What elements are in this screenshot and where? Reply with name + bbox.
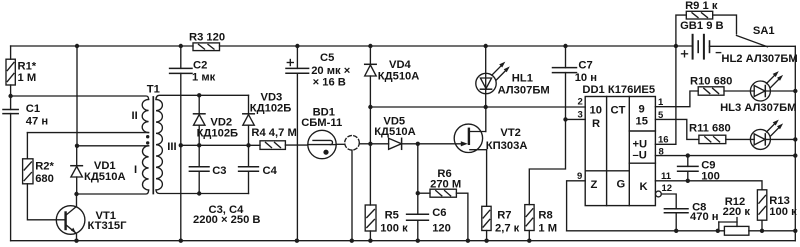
wire top supply bus left segment	[11, 45, 193, 47]
capacitor C7	[553, 46, 577, 119]
node C9 top	[686, 153, 690, 157]
svg-text:R4 4,7 М: R4 4,7 М	[251, 127, 296, 139]
resistor R9	[676, 11, 737, 46]
node HL3 rail	[793, 137, 797, 141]
capacitor C3	[189, 145, 209, 193]
svg-text:I: I	[134, 164, 137, 176]
node C5 top bus	[295, 44, 299, 48]
wire R4 to BD1	[285, 144, 307, 146]
svg-text:КД102Б: КД102Б	[197, 128, 239, 140]
svg-text:R5: R5	[385, 210, 399, 222]
node VT1 collector / VD1 / winding I bottom	[74, 192, 78, 196]
svg-text:R: R	[592, 118, 600, 130]
svg-text:3: 3	[578, 109, 583, 120]
svg-text:–U: –U	[633, 150, 647, 162]
svg-text:C1: C1	[26, 103, 40, 115]
svg-text:K: K	[640, 181, 648, 193]
transformer T1 polarity dots	[146, 135, 149, 138]
resistor R6	[418, 189, 468, 241]
svg-text:120: 120	[432, 223, 451, 235]
svg-text:СБМ-11: СБМ-11	[301, 117, 342, 129]
svg-text:9: 9	[639, 104, 645, 116]
wire top bus down to VD1	[76, 46, 78, 146]
node rail divider row	[793, 229, 797, 233]
switch SA1 blade	[737, 36, 768, 47]
resistor R12 trimmer	[719, 218, 749, 236]
svg-text:R3 120: R3 120	[189, 32, 225, 44]
node R6 ground	[466, 239, 470, 243]
node HL2 rail	[793, 89, 797, 93]
svg-text:470 н: 470 н	[690, 211, 719, 223]
wire pin3 stub	[566, 118, 586, 120]
IC pin12 inversion bubble	[656, 191, 662, 197]
svg-text:VT2: VT2	[500, 127, 521, 139]
diode VD4	[365, 46, 377, 107]
svg-text:C5: C5	[320, 52, 334, 64]
capacitor C2	[170, 46, 192, 241]
svg-text:R2*: R2*	[35, 161, 54, 173]
svg-text:GB1 9 В: GB1 9 В	[680, 20, 724, 32]
IC DD1 box	[585, 97, 655, 206]
wire R10 to HL2	[724, 90, 754, 92]
led HL3	[750, 120, 795, 150]
battery GB1	[682, 35, 721, 59]
svg-text:2,7 к: 2,7 к	[495, 223, 520, 235]
svg-text:КД102Б: КД102Б	[250, 103, 292, 115]
svg-text:DD1 К176ИЕ5: DD1 К176ИЕ5	[582, 84, 655, 96]
svg-text:КП303А: КП303А	[486, 140, 528, 152]
svg-text:1 М: 1 М	[18, 72, 37, 84]
svg-text:R11 680: R11 680	[689, 123, 731, 135]
svg-text:КД510А: КД510А	[374, 126, 416, 138]
svg-text:HL1: HL1	[512, 73, 533, 85]
wire power rail to pin16	[655, 46, 676, 144]
svg-text:HL2 АЛ307БМ: HL2 АЛ307БМ	[721, 53, 797, 65]
resistor R11	[699, 135, 726, 143]
svg-text:1 мк: 1 мк	[192, 72, 216, 84]
svg-text:С3: С3	[212, 165, 226, 177]
svg-text:100 к: 100 к	[380, 223, 408, 235]
node C2 top bus	[179, 44, 183, 48]
svg-text:680: 680	[35, 173, 54, 185]
capacitor C5	[286, 46, 309, 241]
resistor R3	[193, 43, 220, 51]
svg-text:КТ315Г: КТ315Г	[88, 220, 128, 232]
node R1 bottom / C1 top	[8, 94, 12, 98]
wire pin12 to C8	[661, 194, 676, 209]
svg-text:CT: CT	[611, 105, 626, 117]
wire dashed terminal to ground	[351, 150, 353, 241]
C5 plus mark	[287, 60, 293, 66]
wire BD1 to dashed terminal	[336, 143, 345, 145]
node R7 ground	[484, 239, 488, 243]
svg-text:9: 9	[577, 171, 582, 182]
svg-text:Z: Z	[591, 179, 598, 191]
node VD4 bottom / counter wire	[368, 105, 372, 109]
svg-text:2200 × 250 В: 2200 × 250 В	[193, 214, 261, 226]
wire winding III top to VD2/VD3	[156, 95, 249, 99]
svg-text:VD4: VD4	[389, 59, 412, 71]
svg-text:11: 11	[661, 171, 672, 182]
capacitor C6	[407, 144, 429, 241]
node pin3 tap	[563, 117, 567, 121]
node pin8 rail	[793, 153, 797, 157]
transformer T1 core	[152, 97, 154, 194]
transformer T1 winding II	[142, 99, 148, 132]
svg-text:270 М: 270 М	[430, 179, 461, 191]
power rail right	[794, 46, 796, 240]
geiger tube BD1	[308, 130, 336, 158]
svg-text:220 к: 220 к	[723, 206, 751, 218]
wire VD4 node down to anode wire	[369, 107, 371, 144]
svg-text:100 к: 100 к	[769, 206, 797, 218]
svg-text:R7: R7	[497, 210, 511, 222]
resistor R13	[757, 190, 766, 231]
svg-text:5: 5	[658, 110, 664, 121]
resistor R2	[23, 133, 57, 220]
capacitor C1	[3, 110, 18, 241]
svg-text:1: 1	[658, 97, 664, 108]
svg-text:HL3 АЛ307БМ: HL3 АЛ307БМ	[720, 102, 796, 114]
svg-text:47 н: 47 н	[26, 116, 48, 128]
resistor R1	[6, 46, 15, 110]
transistor VT1	[56, 194, 85, 241]
resistor R10	[698, 87, 724, 95]
svg-text:С4: С4	[263, 165, 278, 177]
wire dashed terminal to VD5 node	[359, 143, 370, 145]
wire winding I bottom to collector node	[77, 190, 149, 194]
node C5 ground	[295, 239, 299, 243]
wire winding III bottom / C3 C4 return	[156, 190, 249, 194]
node VD5 cathode / C6 / gate	[416, 142, 420, 146]
svg-text:C7: C7	[578, 60, 592, 72]
svg-text:C2: C2	[193, 60, 207, 72]
svg-text:15: 15	[636, 116, 648, 128]
wire R11 to HL3	[726, 138, 754, 140]
node C2 ground	[179, 239, 183, 243]
wire winding II bottom to R2	[27, 132, 148, 134]
wire pin9 to divider	[567, 181, 586, 231]
svg-text:10: 10	[590, 105, 602, 117]
svg-text:II: II	[132, 110, 138, 122]
dashed terminal circle of BD1	[345, 136, 360, 151]
svg-text:КД510А: КД510А	[84, 171, 126, 183]
node VD4 top bus	[368, 44, 372, 48]
node VD2 top	[197, 93, 201, 97]
wire counter input	[370, 106, 585, 108]
node C9 bottom / pin11 wire	[686, 179, 690, 183]
gate arrowhead	[461, 141, 468, 146]
diode VD3	[243, 95, 255, 145]
node battery plus / R9	[674, 44, 678, 48]
node C8 bottom	[674, 229, 678, 233]
capacitor C4	[239, 145, 259, 193]
diode VD5	[370, 138, 417, 149]
node VD2 bottom / C3 top	[197, 143, 201, 147]
svg-text:1 М: 1 М	[538, 223, 557, 235]
svg-text:100: 100	[701, 171, 720, 183]
node VT1 emitter ground	[74, 239, 78, 243]
node R8 ground	[527, 239, 531, 243]
resistor R4	[260, 141, 285, 150]
svg-text:R10 680: R10 680	[690, 76, 732, 88]
transformer T1 winding III	[156, 99, 162, 190]
svg-text:16: 16	[658, 135, 669, 146]
svg-text:III: III	[167, 141, 176, 153]
diode VD2	[194, 95, 206, 145]
wire gate	[418, 143, 461, 145]
transistor VT2	[454, 107, 486, 206]
wire ground bus	[11, 240, 796, 242]
IC pin11 wire to R13	[655, 181, 762, 190]
svg-text:R1*: R1*	[18, 61, 37, 73]
resistor R7	[482, 206, 491, 240]
node HL1 / VT2 drain	[484, 105, 488, 109]
resistor R8	[525, 205, 534, 241]
wire node96 to winding II top	[11, 96, 149, 99]
IC pin5 wire to R11	[655, 119, 699, 139]
led HL2	[750, 71, 795, 101]
wire HV node to R4	[181, 144, 260, 146]
node HL1 top bus	[484, 44, 488, 48]
svg-text:T1: T1	[147, 84, 160, 96]
resistor R5	[365, 144, 376, 241]
wire R12 to rail	[749, 230, 795, 232]
svg-text:R9 1 к: R9 1 к	[685, 0, 718, 12]
node top bus x77	[75, 44, 79, 48]
node winding I top	[75, 144, 79, 148]
wire to R8	[529, 119, 565, 204]
node VD3 bottom / C4 / R4	[246, 143, 250, 147]
node HV wire left	[179, 143, 183, 147]
node dashed terminal ground	[350, 239, 354, 243]
transformer T1 winding I	[142, 146, 148, 190]
led HL1	[476, 46, 510, 107]
node C6 ground	[416, 239, 420, 243]
node C3 bottom	[197, 191, 201, 195]
node R12 wiper tie	[716, 229, 720, 233]
svg-text:2: 2	[578, 97, 583, 108]
wire winding I top	[77, 145, 149, 147]
svg-text:20 мк ×: 20 мк ×	[311, 65, 351, 77]
svg-text:G: G	[617, 179, 626, 191]
node C7 top bus	[563, 44, 567, 48]
svg-text:× 16 В: × 16 В	[313, 77, 346, 89]
svg-text:R8: R8	[538, 210, 552, 222]
svg-text:КД510А: КД510А	[378, 71, 420, 83]
svg-text:SA1: SA1	[753, 25, 775, 37]
svg-text:C6: C6	[432, 207, 446, 219]
wire divider row	[567, 230, 725, 232]
IC pin8 wire	[655, 155, 795, 157]
wire battery minus to switch rail	[710, 45, 796, 47]
capacitor C8	[664, 209, 688, 231]
svg-text:8: 8	[659, 147, 664, 158]
node R5 ground	[368, 239, 372, 243]
svg-text:АЛ307БМ: АЛ307БМ	[498, 85, 550, 97]
node anode wire / R5	[368, 142, 372, 146]
svg-text:10 н: 10 н	[575, 72, 597, 84]
node R13 bottom	[760, 229, 764, 233]
diode VD1	[71, 146, 83, 194]
svg-text:12: 12	[662, 183, 673, 194]
wire top supply bus right segment	[220, 45, 693, 47]
node C6/R6	[416, 191, 420, 195]
capacitor C9	[678, 156, 698, 181]
IC pin1 wire to R10	[655, 91, 698, 107]
